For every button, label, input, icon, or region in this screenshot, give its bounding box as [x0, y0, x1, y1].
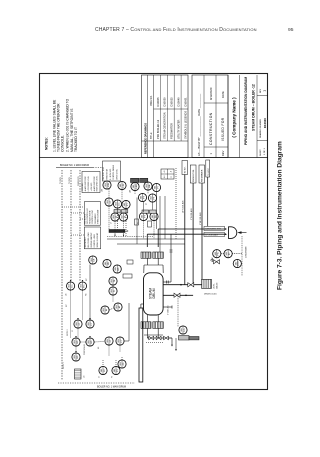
svg-text:FROM DCS: FROM DCS — [78, 176, 80, 186]
dotted branch — [175, 168, 177, 239]
drum alarm table — [161, 169, 174, 179]
pipe to superheater — [184, 175, 186, 285]
svg-text:PFD BOILER-12: PFD BOILER-12 — [156, 119, 160, 139]
signal line horizontals — [107, 236, 153, 238]
svg-text:CONDENSATE: CONDENSATE — [245, 246, 248, 258]
svg-text:LT: LT — [111, 222, 113, 224]
svg-text:+8: +8 — [164, 171, 166, 173]
svg-text:BOILER NO. 1 MAIN DRUM: BOILER NO. 1 MAIN DRUM — [97, 386, 126, 389]
svg-text:CONTROL USED: CONTROL USED — [94, 233, 96, 247]
svg-text:HS: HS — [98, 347, 100, 349]
svg-text:D10030: D10030 — [163, 97, 167, 107]
instrument bubble LT-302 — [119, 213, 127, 221]
svg-text:FEEDWATER: FEEDWATER — [170, 123, 174, 139]
saturated steam sample line — [163, 295, 185, 297]
drum bottom downcomer boxes — [141, 322, 151, 329]
left column connections — [89, 265, 91, 320]
svg-text:BOILER NO. 1 MAIN DRUM: BOILER NO. 1 MAIN DRUM — [60, 164, 89, 167]
svg-text:DRAWING NUMBER: DRAWING NUMBER — [259, 119, 262, 138]
note box A — [82, 172, 100, 193]
instrument bubble LY-303 — [105, 337, 113, 345]
instrument bubble LIC-301 — [67, 282, 75, 290]
instrument bubble FY-303 — [116, 337, 124, 345]
line label TO SUPERHEATER — [182, 161, 188, 175]
svg-text:DRUM LG-301: DRUM LG-301 — [204, 294, 217, 296]
svg-text:STEAM DRUM – BOILER -12: STEAM DRUM – BOILER -12 — [251, 84, 255, 131]
svg-text:Figure 7-3. Piping and Instrum: Figure 7-3. Piping and Instrumentation D… — [277, 141, 284, 290]
steam drum vessel — [144, 273, 164, 315]
instrument bubble AI-301 — [101, 306, 109, 314]
svg-text:NOTE 1: NOTE 1 — [63, 363, 65, 370]
svg-text:RESIDES IN THE: RESIDES IN THE — [90, 210, 92, 224]
svg-text:PT: PT — [146, 203, 148, 205]
svg-text:PIPING AND INSTRUMENTATION DIA: PIPING AND INSTRUMENTATION DIAGRAM — [244, 77, 248, 145]
reference drawings table — [142, 75, 189, 158]
return arrow — [237, 231, 241, 234]
instrument bubble FY-302 — [86, 320, 94, 328]
instrument bubble LAH-301 — [131, 182, 139, 190]
svg-text:LAH: LAH — [135, 184, 138, 189]
svg-text:CONSOLE.: CONSOLE. — [61, 135, 65, 152]
svg-text:ALARM SETPOINT: ALARM SETPOINT — [93, 176, 96, 191]
svg-text:THREE ELEMENT: THREE ELEMENT — [97, 210, 99, 224]
svg-text:D10001: D10001 — [183, 97, 187, 107]
instrument bubble FT-301 — [139, 212, 147, 220]
svg-text:TO VENT: TO VENT — [208, 167, 210, 176]
instrument bubble LAL-301 — [144, 182, 152, 190]
steam line labels — [204, 226, 225, 230]
instrument bubble HS-305 — [113, 265, 121, 273]
svg-text:D10040: D10040 — [177, 97, 181, 107]
revision table — [192, 75, 228, 158]
svg-text:AS — BUILT BY __________: AS — BUILT BY ______________ DATE ______… — [197, 93, 201, 156]
svg-text:HIGH DRUM LEVEL: HIGH DRUM LEVEL — [97, 176, 99, 192]
instrument bubble FIC-301 — [78, 282, 86, 290]
instrument bubble FV-301 — [112, 366, 120, 374]
svg-text:NOTE 2: NOTE 2 — [67, 330, 69, 337]
svg-text:BELOW 20% LOAD: BELOW 20% LOAD — [87, 232, 90, 248]
transmitter manifolds — [114, 210, 120, 213]
drum nozzle stubs — [163, 281, 171, 283]
svg-text:10" S-301-A03: 10" S-301-A03 — [182, 201, 185, 213]
instrument bubble PCV-302 — [233, 259, 241, 267]
svg-text:CONTROL LOGIC: CONTROL LOGIC — [92, 209, 94, 224]
svg-text:CONTROL RANGE: CONTROL RANGE — [112, 164, 115, 180]
svg-text:TO DCS: TO DCS — [69, 176, 71, 184]
svg-text:TO S.H.: TO S.H. — [185, 166, 187, 174]
instrument bubble PY-302 — [224, 250, 232, 258]
instrument bubble ZS-301 — [118, 360, 126, 368]
instrument bubble PT-301 — [138, 193, 146, 201]
svg-text:STEAM GENERATION: STEAM GENERATION — [163, 112, 167, 139]
svg-text:DCS CONTROLLER: DCS CONTROLLER — [87, 208, 89, 224]
svg-text:DATE: DATE — [221, 91, 225, 98]
instrument bubble TE-301 — [109, 277, 117, 285]
svg-text:D10029: D10029 — [263, 118, 267, 128]
instrument bubble TI-301 — [109, 287, 117, 295]
instrument bubble LG-302 — [179, 326, 187, 334]
svg-text:LOW DRUM LEVEL: LOW DRUM LEVEL — [88, 176, 90, 191]
svg-text:1 OF 1: 1 OF 1 — [264, 148, 266, 155]
instrument bubble HS-302 — [86, 338, 94, 346]
svg-text:FEEDWATER: FEEDWATER — [94, 213, 97, 224]
instrument bubble PT-302 — [148, 194, 156, 202]
level column / coil — [202, 279, 212, 288]
svg-text:TITLE: TITLE — [150, 132, 153, 139]
note box B — [103, 161, 121, 181]
pipe from economizer — [192, 183, 194, 285]
svg-text:REV: REV — [221, 150, 225, 156]
feedwater inlet pipe — [163, 284, 202, 286]
svg-text:DRUM LEVEL: DRUM LEVEL — [116, 169, 118, 180]
svg-text:0 - 30 IN. H2O: 0 - 30 IN. H2O — [110, 168, 112, 180]
drum top riser boxes — [141, 252, 151, 258]
vent line — [170, 234, 172, 282]
inline element dark box — [109, 230, 125, 233]
line label FROM ECONOMIZER — [190, 165, 196, 183]
instrument bubble AT-301 — [114, 303, 122, 311]
instrument bubble PI-301 — [152, 183, 160, 191]
svg-text:REFERENCE DRAWINGS: REFERENCE DRAWINGS — [143, 123, 147, 154]
instrument bubble PIC-302 — [213, 250, 221, 258]
svg-text:DRUM: DRUM — [152, 288, 156, 298]
DCS signal line 2 — [70, 170, 72, 284]
svg-text:ALARM SETPOINT: ALARM SETPOINT — [84, 176, 87, 191]
svg-text:LG: LG — [184, 328, 186, 331]
arrows into left controllers — [70, 280, 72, 282]
drawing border frame — [40, 74, 268, 390]
instrument bubble LSH-301 — [103, 181, 111, 189]
signal dashes band3 — [114, 221, 116, 236]
instrument bubble LY-302 — [74, 320, 82, 328]
instrument bubble FY-301 — [122, 200, 130, 208]
instrument bubble HS-304 — [103, 259, 111, 267]
svg-text:SYMBOLS & LEGENDS: SYMBOLS & LEGENDS — [183, 111, 187, 139]
svg-text:UTILITY WATER: UTILITY WATER — [177, 119, 181, 139]
svg-text:LEVEL: LEVEL — [214, 283, 216, 289]
instrument bubble LY-301 — [105, 198, 113, 206]
svg-text:SHEET: SHEET — [260, 149, 262, 156]
svg-text:( Company Name ): ( Company Name ) — [232, 97, 237, 138]
saturated steam line 1 — [146, 234, 148, 247]
svg-text:LSH: LSH — [108, 182, 110, 187]
instrument bubble LT-301 — [111, 213, 119, 221]
feedwater pipe — [201, 183, 203, 279]
svg-text:LIC: LIC — [118, 202, 120, 206]
svg-text:95: 95 — [288, 27, 294, 33]
instrument bubble HS-303 — [72, 353, 80, 361]
instrument bubble LIC-301 — [113, 200, 121, 208]
svg-text:FACTORY TEST: FACTORY TEST — [102, 167, 105, 180]
vent pipe — [207, 177, 209, 226]
blowdown valve manifold — [146, 335, 148, 338]
local level gauge — [177, 296, 179, 327]
svg-text:TO DCS: TO DCS — [60, 176, 62, 184]
svg-text:CONTROLLER: CONTROLLER — [84, 343, 86, 355]
svg-text:FIC: FIC — [83, 284, 85, 288]
svg-text:FT: FT — [138, 222, 140, 224]
svg-text:GAUGE: GAUGE — [215, 282, 218, 289]
instrument impulse lines — [108, 189, 110, 198]
svg-text:D10005: D10005 — [156, 97, 160, 107]
svg-text:2. WHEN LIC-301 IS CHANGED T: 2. WHEN LIC-301 IS CHANGED TO — [66, 98, 70, 152]
instrument bubble LR-301 — [89, 256, 97, 264]
small box below band — [123, 274, 132, 278]
title block — [227, 75, 229, 158]
svg-text:DWG NO.: DWG NO. — [150, 95, 153, 106]
svg-text:SEE NOTE 1: SEE NOTE 1 — [84, 214, 86, 224]
line label FEEDWATER — [199, 165, 205, 183]
svg-text:PCV: PCV — [238, 261, 240, 266]
svg-text:SINGLE ELEMENT: SINGLE ELEMENT — [97, 233, 99, 248]
instrument bubble LSL-301 — [118, 181, 126, 189]
svg-text:+4 IN. H2O: +4 IN. H2O — [91, 182, 93, 191]
svg-text:2" D-301-A03: 2" D-301-A03 — [190, 209, 193, 220]
svg-text:SEE NOTE 2: SEE NOTE 2 — [85, 237, 87, 247]
line label VENT — [206, 160, 210, 177]
DCS signal line 1 — [61, 170, 63, 380]
svg-text:FROM ECON.: FROM ECON. — [193, 169, 195, 182]
svg-text:-4 IN. H2O: -4 IN. H2O — [82, 182, 84, 191]
level glass — [75, 369, 82, 379]
svg-text:NOTES:: NOTES: — [45, 137, 49, 150]
DCS link dashes — [62, 206, 84, 208]
svg-text:-8: -8 — [171, 171, 173, 173]
svg-text:3" BF-301-A03: 3" BF-301-A03 — [199, 213, 202, 225]
svg-text:PIC: PIC — [218, 251, 220, 255]
note box D — [84, 227, 100, 249]
svg-text:D10025: D10025 — [170, 97, 174, 107]
instrument bubble FE-301 — [150, 212, 158, 220]
note box C — [84, 202, 100, 226]
svg-text:TRACKED TO IT: TRACKED TO IT — [74, 127, 78, 152]
instrument bubble LV-301 — [99, 366, 107, 374]
svg-text:ISSUED FOR: ISSUED FOR — [221, 117, 225, 141]
lower pipe — [163, 294, 193, 296]
svg-text:2" CBD-301: 2" CBD-301 — [168, 305, 170, 315]
DCS signal line 3 — [79, 170, 81, 282]
svg-text:LL: LL — [171, 176, 173, 178]
svg-text:9/12/2020: 9/12/2020 — [209, 87, 213, 100]
svg-text:LIC: LIC — [71, 284, 73, 288]
svg-text:FEEDWATER: FEEDWATER — [201, 169, 204, 182]
downcomer external pipe — [139, 308, 143, 382]
match line boiler boundary (top) — [56, 167, 93, 169]
off-page connector — [229, 227, 237, 239]
svg-text:10"-S-301-A03: 10"-S-301-A03 — [205, 234, 217, 237]
instrument bubble HS-301 — [72, 338, 80, 346]
svg-text:SATURATED STM: SATURATED STM — [205, 228, 221, 231]
svg-text:SPAN SET AT: SPAN SET AT — [106, 169, 109, 180]
svg-text:DURING STARTUP: DURING STARTUP — [90, 232, 93, 248]
svg-text:CONSTRUCTION: CONSTRUCTION — [209, 112, 213, 145]
title strip separator — [39, 157, 268, 159]
saturated steam line 2 — [157, 229, 159, 247]
control valve w/ actuator — [214, 260, 220, 264]
match line (bottom) — [58, 382, 135, 384]
